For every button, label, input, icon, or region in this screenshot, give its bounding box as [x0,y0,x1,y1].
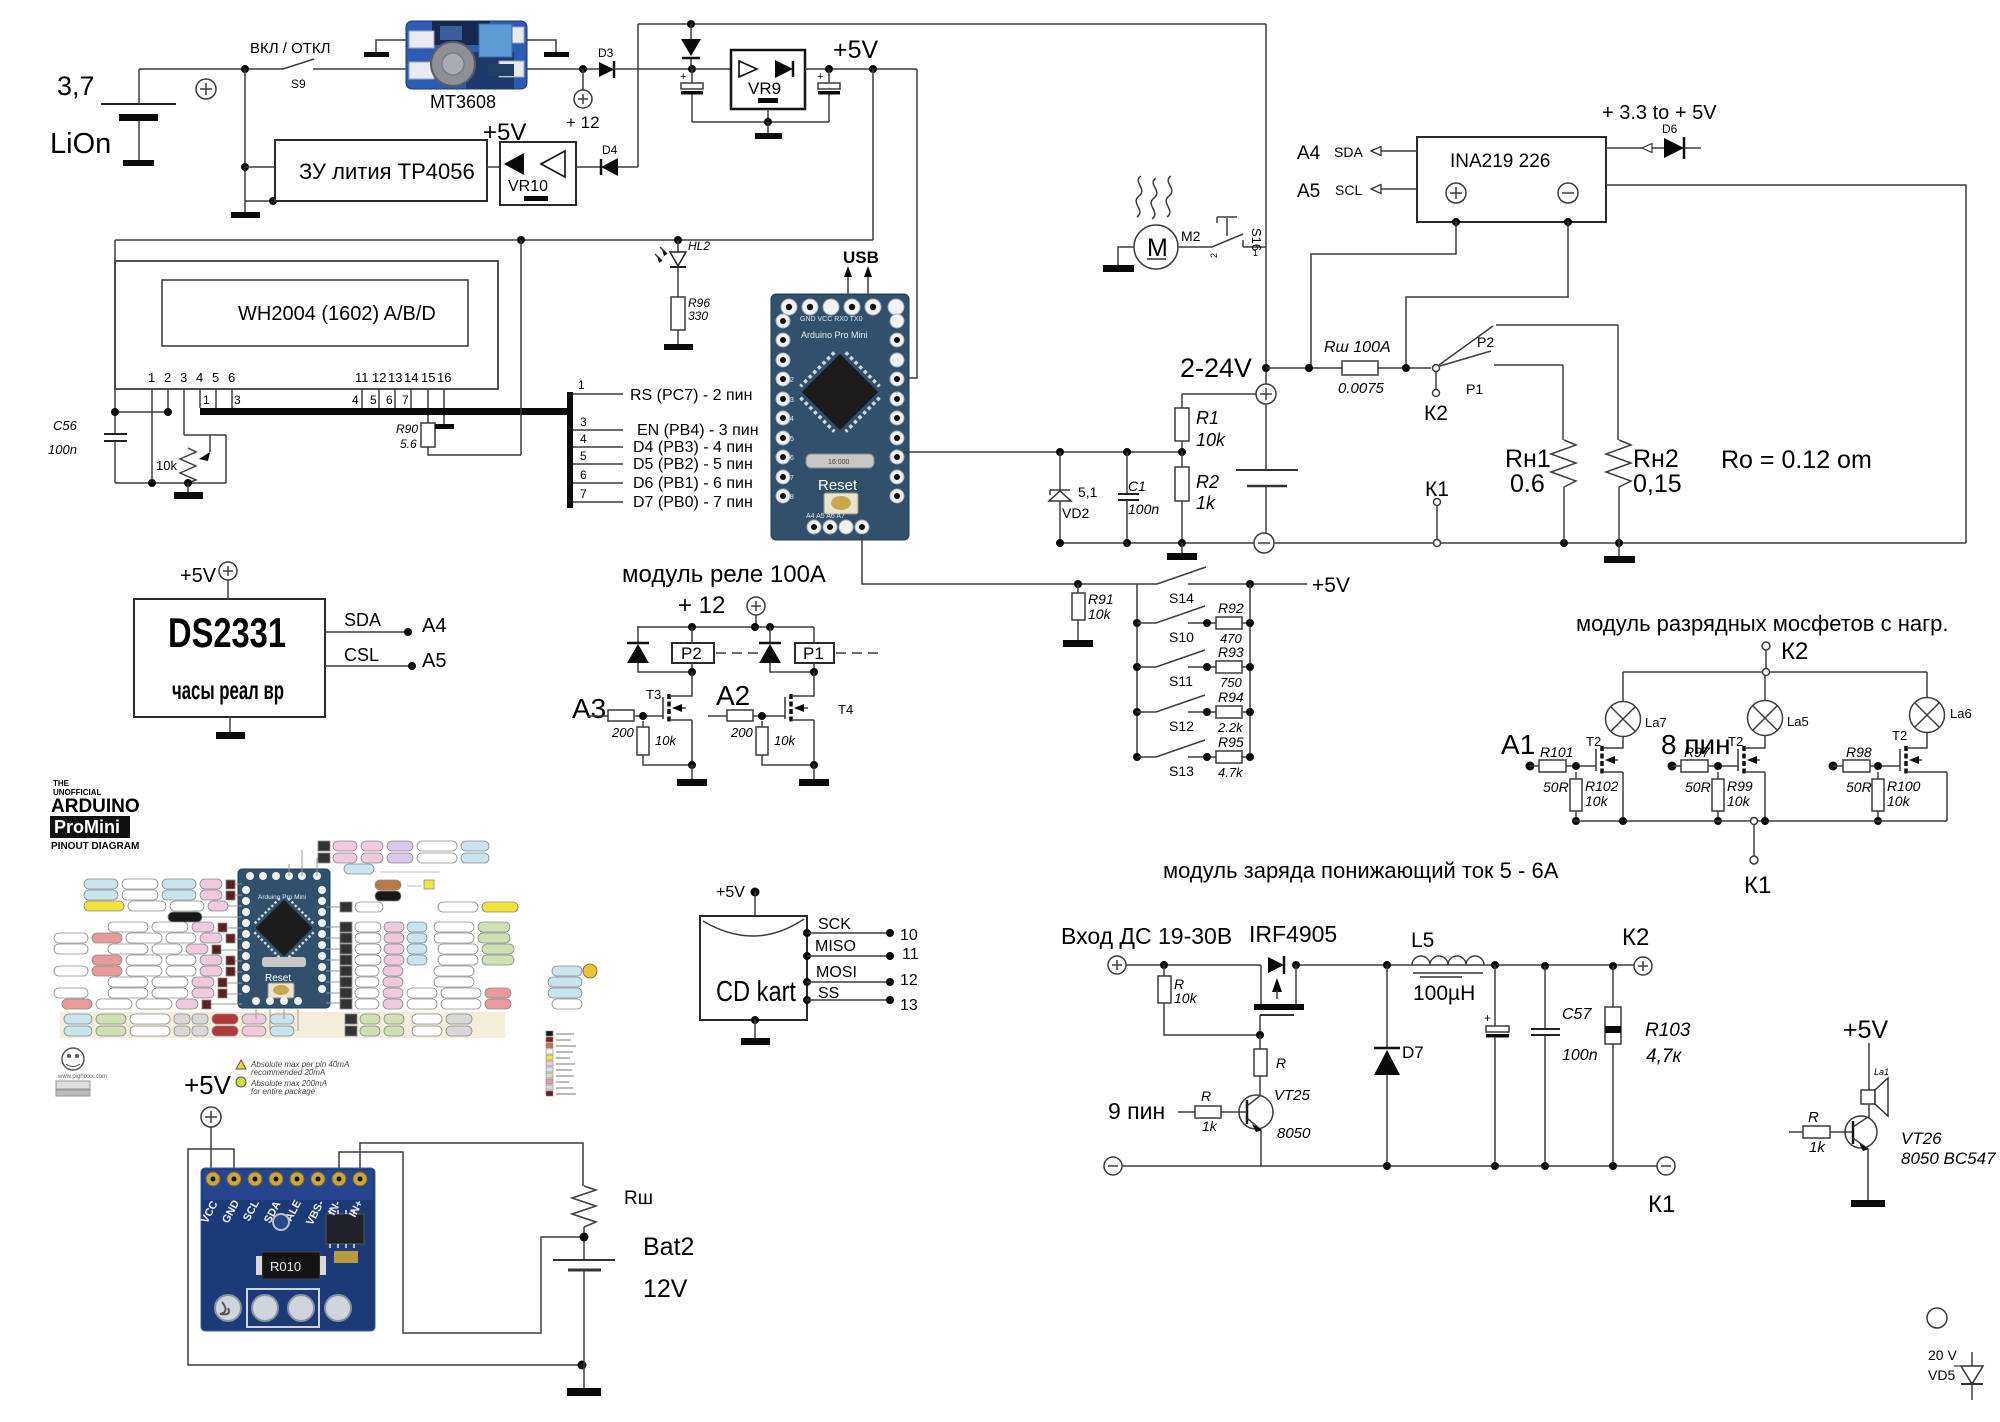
svg-text:+: + [680,71,686,83]
svg-text:C56: C56 [53,418,78,433]
svg-text:5: 5 [212,370,219,385]
svg-text:R101: R101 [1540,744,1573,760]
svg-text:SCL: SCL [1335,182,1362,198]
svg-text:200: 200 [611,725,634,740]
switch S9 [250,40,406,91]
resistor R102 10k [1570,772,1619,825]
svg-text:К2: К2 [1622,924,1649,951]
svg-text:К2: К2 [1781,638,1808,665]
CD kart ground [741,1016,770,1045]
battery symbol [101,69,176,160]
wire D3 to VR9 [614,68,731,70]
svg-text:R92: R92 [1218,600,1244,616]
wire battery to S9 [139,68,283,70]
ground T3 [677,765,707,786]
terminal K2 discharge [1762,638,1808,672]
ground under Rn2 [1604,543,1635,563]
pinout cc logos [56,1081,90,1096]
svg-text:К2: К2 [1424,402,1448,425]
svg-text:100n: 100n [1128,501,1159,517]
svg-text:A5: A5 [422,650,446,672]
resistor R base VT25 [1254,1035,1286,1095]
plus marker near battery [196,79,216,99]
resistor 200 T3 gate [588,710,663,740]
svg-text:A4: A4 [422,615,446,637]
svg-text:VD5: VD5 [1928,1367,1955,1383]
INA sense wire minus [1406,218,1572,368]
transistor VT25 8050 [1239,1087,1311,1166]
svg-text:10k: 10k [1174,990,1198,1006]
svg-text:VT25: VT25 [1274,1087,1311,1104]
INA module IN- wire [339,1152,584,1333]
svg-text:A4: A4 [1297,143,1321,164]
svg-text:La7: La7 [1645,715,1667,730]
svg-text:D6: D6 [1662,122,1678,136]
rail +5V to LCD top [115,239,873,241]
wire S9 down to TP4056 [241,69,277,212]
lamp La6 [1910,672,1972,733]
svg-text:7: 7 [402,393,409,407]
LCD pin numbers [148,370,451,385]
svg-text:+: + [1484,1011,1491,1025]
switch S11 + R93 750 [1133,644,1254,690]
svg-text:SDA: SDA [1334,144,1363,160]
svg-text:1: 1 [578,378,585,392]
ground under battery [123,160,154,166]
svg-text:GND VCC RX0 TX0: GND VCC RX0 TX0 [800,316,863,323]
svg-text:M2: M2 [1181,228,1201,244]
svg-text:C57: C57 [1562,1006,1592,1023]
USB arrows to RXD TXD [844,266,872,295]
VT26 collector wire [1868,1043,1870,1090]
battery Bat2 12V [553,1233,694,1388]
resistor R 1k VT25 base [1178,1088,1247,1134]
INA module GND loop to battery minus [188,1149,587,1370]
diode D7 [1374,965,1424,1166]
ground T4 [799,765,829,786]
svg-text:6: 6 [790,455,794,462]
resistor R91 10k [1072,580,1114,640]
wire TP4056 to VR10 [487,166,500,168]
motor M2 [1134,225,1201,269]
svg-text:S11: S11 [1169,673,1193,689]
svg-text:50R: 50R [1846,779,1872,795]
svg-text:10k: 10k [1088,606,1112,622]
svg-text:Bat2: Bat2 [643,1233,694,1261]
svg-text:1: 1 [203,393,210,407]
svg-text:3: 3 [790,397,794,404]
svg-text:1k: 1k [1196,493,1216,513]
svg-text:La5: La5 [1787,714,1809,729]
svg-text:К1: К1 [1648,1191,1675,1218]
svg-text:8050: 8050 [1277,1125,1311,1142]
svg-text:+5V: +5V [716,884,745,901]
heat squiggles over motor [1136,176,1172,219]
terminal K2 [1424,371,1448,425]
switch S14 in line [1157,567,1307,606]
svg-text:T2: T2 [1892,728,1907,743]
transistor T4 [785,672,853,765]
resistor R96 330 [671,296,710,344]
svg-text:R103: R103 [1645,1020,1691,1041]
left rail switch bank [1136,584,1138,757]
svg-text:К1: К1 [1425,478,1449,501]
pinout central board [238,869,330,1008]
svg-text:100µН: 100µН [1413,982,1475,1005]
svg-text:ЗУ лития ТР4056: ЗУ лития ТР4056 [299,159,475,184]
resistor 10k T3 [637,721,696,769]
relay P1 [795,627,878,676]
svg-text:A4 A5 A6 A7: A4 A5 A6 A7 [806,513,845,520]
svg-text:R96: R96 [688,296,710,310]
svg-text:13: 13 [900,997,918,1014]
box LCD outer [115,261,498,389]
svg-text:Rш 100А: Rш 100А [1324,339,1391,356]
svg-text:9 пин: 9 пин [1108,1098,1165,1124]
resistor R98 50R [1829,744,1901,795]
svg-text:Arduino Pro Mini: Arduino Pro Mini [258,894,306,901]
LCD pin stubs to bus [152,389,444,483]
svg-text:2-24V: 2-24V [1180,353,1252,383]
svg-text:14: 14 [404,370,418,385]
svg-text:10k: 10k [1887,793,1911,809]
transistor VT26 [1845,1104,1996,1200]
box LCD inner WH2004 [162,280,468,346]
module Arduino Pro Mini (photo) [771,294,909,540]
svg-text:for entire package: for entire package [251,1087,316,1096]
mosfet IRF4905 [1254,956,1304,1039]
svg-text:+5V: +5V [1843,1016,1889,1044]
svg-text:VR9: VR9 [748,79,781,98]
svg-text:R94: R94 [1218,689,1244,705]
node R90 riser [517,236,525,244]
svg-text:100n: 100n [48,442,77,457]
svg-text:2: 2 [1209,253,1219,258]
svg-text:200: 200 [730,725,753,740]
svg-text:INA219 226: INA219 226 [1450,151,1550,172]
node HL2 [674,236,682,244]
lamp La5 [1748,676,1809,736]
resistor R97 50R [1668,744,1739,795]
svg-text:A1: A1 [1501,729,1535,760]
lamp La7 [1606,672,1667,737]
svg-text:RS (PC7) - 2 пин: RS (PC7) - 2 пин [630,387,752,404]
wire +5V riser down to LCD rail [872,69,874,240]
diode D6 output [1606,122,1701,159]
svg-text:A2: A2 [716,680,750,711]
svg-text:R010: R010 [270,1259,301,1274]
flyback diode at P1 [759,627,814,672]
svg-text:4,7к: 4,7к [1646,1046,1682,1067]
svg-text:SS: SS [818,985,839,1002]
box VR9 converter [731,50,805,109]
svg-text:модуль разрядных мосфетов с на: модуль разрядных мосфетов с нагр. [1576,611,1948,636]
resistor 10k T4 [756,721,818,769]
mosfet T2 second [1728,734,1765,821]
minus terminal 2-24V [1254,533,1274,553]
pinout top right rows [318,841,597,1009]
svg-text:20 V: 20 V [1928,1347,1957,1363]
charger input plus [1108,956,1126,974]
svg-text:S13: S13 [1169,763,1194,779]
wire A0 to divider [904,451,1181,453]
svg-text:DS2331: DS2331 [168,609,286,656]
svg-text:M: M [1147,234,1168,262]
potentiometer 10k [156,435,226,483]
svg-text:R98: R98 [1846,744,1872,760]
load bottom line [1274,539,1966,547]
svg-text:10k: 10k [1196,430,1226,450]
pinout owl logo [57,1048,107,1080]
svg-text:La6: La6 [1950,706,1972,721]
CD kart +5V [716,884,760,916]
svg-text:0.0075: 0.0075 [1338,380,1385,397]
transistor T3 [646,672,692,765]
svg-text:Arduino Pro Mini: Arduino Pro Mini [801,330,868,340]
diode VD5 [1954,1352,1983,1400]
capacitor C56 [48,240,127,483]
VR9 ground loop [692,109,829,139]
diode vertical under top node [681,24,701,69]
svg-text:R: R [1808,1109,1819,1126]
svg-text:5: 5 [580,449,587,463]
svg-text:5: 5 [790,436,794,443]
inductor L5 100uH [1411,929,1484,1005]
mosfet T2 first [1586,734,1623,821]
svg-text:10k: 10k [774,733,796,748]
svg-text:Lа1: Lа1 [1874,1067,1889,1077]
svg-text:IRF4905: IRF4905 [1249,921,1337,947]
switch S13 + R95 4.7k [1133,734,1254,780]
svg-text:2: 2 [164,370,171,385]
svg-text:P1: P1 [803,644,824,663]
spare circle bottom right [1927,1308,1947,1328]
svg-text:P1: P1 [1466,381,1483,397]
terminal K1 [1425,478,1449,547]
svg-text:D4 (PB3) - 4 пин: D4 (PB3) - 4 пин [633,439,753,456]
svg-text:0,15: 0,15 [1633,470,1682,498]
relay top rail [637,623,814,631]
svg-text:16:000: 16:000 [828,459,850,466]
resistor R101 50R [1526,744,1597,795]
svg-text:100n: 100n [1562,1047,1598,1064]
resistor R100 10k [1872,772,1921,825]
svg-text:A3: A3 [572,693,606,724]
svg-text:ARDUINO: ARDUINO [51,796,140,817]
ground battery Bat2 [567,1388,601,1396]
shunt Rsh 100A [1266,339,1431,397]
svg-text:L5: L5 [1411,929,1434,952]
svg-text:8050 BC547: 8050 BC547 [1901,1149,1996,1168]
svg-text:D7: D7 [1402,1043,1424,1062]
switch S10 + R92 470 [1133,600,1254,646]
INA module IN+ wire [360,1143,583,1186]
svg-text:12: 12 [900,972,918,989]
svg-text:4: 4 [580,432,587,446]
ground R91 [1063,640,1093,647]
svg-text:3,7: 3,7 [57,71,95,101]
svg-text:13: 13 [388,370,402,385]
box TP4056 charger [275,140,487,201]
resistor Rn1 0.6 [1505,365,1576,543]
box INA219 226 [1417,137,1606,222]
svg-text:USB: USB [843,248,879,267]
switch P2 [1433,325,1619,372]
svg-text:Rн1: Rн1 [1505,445,1551,473]
svg-text:MOSI: MOSI [816,964,857,981]
svg-text:S12: S12 [1169,718,1194,734]
svg-text:12: 12 [372,370,386,385]
svg-text:6: 6 [228,370,235,385]
switch S12 + R94 2.2k [1133,689,1254,735]
box DS2331 RTC [134,599,325,717]
svg-text:1: 1 [1253,248,1258,258]
ground under R96 [664,344,693,350]
MT3608 module gnd stubs [364,40,569,57]
svg-text:1k: 1k [1202,1118,1218,1134]
pinout legend box [546,1031,576,1096]
box CD kart [700,916,807,1020]
svg-text:модуль реле 100А: модуль реле 100А [622,561,826,588]
svg-text:2: 2 [790,377,794,384]
svg-text:VD2: VD2 [1062,505,1089,521]
svg-text:MT3608: MT3608 [430,92,496,112]
resistor Rn2 0,15 [1606,325,1682,543]
speaker La1 [1861,1067,1889,1116]
DS2331 ground [216,717,245,739]
wire A7 down to switch line [862,534,1157,584]
svg-text:ProMini: ProMini [54,817,120,837]
DS2331 CSL to A5 [325,645,446,672]
discharge top rail [1623,669,1927,676]
INA plus terminal [1446,183,1466,203]
svg-text:D7 (PB0) - 7 пин: D7 (PB0) - 7 пин [633,494,753,511]
DS2331 SDA to A4 [325,610,446,637]
terminal K1 discharge [1744,818,1771,900]
diode D3 [598,46,614,78]
charger top wire [1126,961,1634,970]
labels RS EN D4-D7 pins [630,387,759,511]
svg-text:+5V: +5V [833,36,879,64]
svg-text:D6 (PB1) - 6 пин: D6 (PB1) - 6 пин [633,475,753,492]
svg-text:16: 16 [437,370,451,385]
svg-text:LiOn: LiOn [50,128,111,160]
svg-text:Reset: Reset [265,973,291,984]
module INA219 breakout (photo) [199,1168,375,1331]
svg-text:6: 6 [580,468,587,482]
svg-text:R102: R102 [1585,778,1619,794]
capacitor electrolytic at VR9 input [680,69,703,122]
svg-text:recommended 20mA: recommended 20mA [251,1068,325,1077]
svg-text:Rш: Rш [624,1188,653,1209]
svg-text:1k: 1k [1809,1139,1826,1156]
svg-text:Rн2: Rн2 [1633,445,1679,473]
flyback diode at P2 [627,627,692,672]
pinout connector lines [202,850,340,1031]
svg-text:www.pighixxx.com: www.pighixxx.com [57,1074,107,1080]
box VR10 regulator [500,142,576,205]
svg-text:4: 4 [790,416,794,423]
charger bottom rail [1122,1162,1657,1170]
svg-text:P2: P2 [681,644,702,663]
svg-text:D3: D3 [598,46,614,60]
node junction at S9 [241,65,249,73]
svg-text:10k: 10k [1727,793,1751,809]
INA minus output long wire right edge [1606,185,1966,543]
relay plus terminal [747,597,765,627]
svg-text:+5V: +5V [1312,574,1350,597]
svg-text:P2: P2 [1477,334,1494,350]
ground under TP4056 input [231,212,260,218]
resistor R 10k charger [1158,965,1260,1035]
capacitor electrolytic charger [1484,965,1509,1166]
svg-text:5,1: 5,1 [1078,484,1098,500]
svg-text:VR10: VR10 [508,178,548,195]
resistor R99 10k [1712,772,1753,825]
riser battery plus from top wire [1262,24,1270,384]
switch S16 button [1178,217,1266,258]
svg-text:CSL: CSL [344,645,379,665]
svg-text:5.6: 5.6 [400,437,417,451]
INA minus terminal [1558,183,1578,203]
svg-text:10k: 10k [1585,793,1609,809]
svg-text:Ro = 0.12 om: Ro = 0.12 om [1721,446,1872,474]
svg-text:750: 750 [1220,675,1242,690]
pinout diagram header [50,779,140,852]
resistor R90 5.6 [396,240,521,455]
motor ground lead [1103,247,1134,272]
svg-text:Вход ДС 19-30В: Вход ДС 19-30В [1061,923,1232,949]
svg-text:3: 3 [180,370,187,385]
svg-text:R: R [1201,1088,1211,1104]
svg-text:4.7k: 4.7k [1218,765,1244,780]
resistor R1 10k [1175,394,1256,452]
svg-text:15: 15 [421,370,435,385]
node VR9 input [688,65,696,73]
node +5V [869,65,877,73]
plus terminal 2-24V [1256,384,1276,404]
relay P2 [672,627,758,676]
capacitor C1 100n [1118,448,1159,543]
DS2331 +5V feed [180,562,237,599]
charger output plus K2 [1622,924,1652,975]
svg-text:11: 11 [902,946,919,963]
svg-text:D5 (PB2) - 5 пин: D5 (PB2) - 5 пин [633,456,753,473]
svg-text:модуль заряда понижающий ток: модуль заряда понижающий ток 5 - 6А [1163,858,1559,883]
svg-text:S14: S14 [1169,590,1194,606]
svg-text:3: 3 [234,393,241,407]
svg-text:PINOUT DIAGRAM: PINOUT DIAGRAM [51,841,139,852]
svg-text:50R: 50R [1543,779,1569,795]
svg-text:Reset: Reset [818,477,858,494]
svg-text:R93: R93 [1218,644,1244,660]
svg-text:R97: R97 [1684,744,1711,760]
svg-text:R100: R100 [1887,778,1921,794]
wire pin2 to C56 rail [111,408,172,416]
mosfet T2 third [1892,728,1947,821]
label A5 SCL with arrow [1297,181,1417,202]
svg-text:+5V: +5V [180,565,217,587]
riser D4 to top wire [637,24,639,167]
svg-text:ВКЛ / ОТКЛ: ВКЛ / ОТКЛ [250,40,331,57]
divider bottom line [1056,539,1254,547]
node +12 [566,65,600,132]
bus tap numbers [203,393,409,407]
wire module to D3 [527,68,599,70]
svg-text:MISO: MISO [815,938,856,955]
svg-text:WH2004 (1602) A/B/D: WH2004 (1602) A/B/D [238,303,436,325]
svg-text:R99: R99 [1727,778,1753,794]
